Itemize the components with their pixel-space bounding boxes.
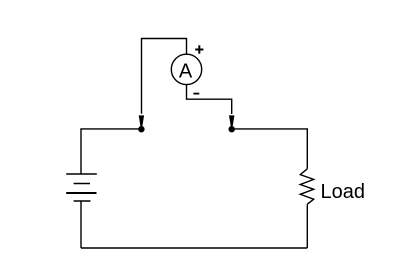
arrow to left junction <box>139 115 144 126</box>
label - polarity <box>193 93 199 95</box>
ammeter A <box>171 54 201 84</box>
label + polarity <box>195 45 203 53</box>
wire battery negative lead down to bottom rail <box>80 201 82 248</box>
wire bottom rail <box>81 247 307 249</box>
wire ammeter negative lead down right and down <box>187 85 232 114</box>
battery <box>66 174 97 201</box>
resistor Load <box>300 169 313 204</box>
svg-text:A: A <box>179 61 193 83</box>
node right junction <box>229 126 235 132</box>
node left junction <box>138 126 144 132</box>
wire load bottom lead <box>306 204 308 248</box>
wire load top lead and right junction rail <box>232 129 308 169</box>
wire battery positive lead up and right to left junction <box>81 129 141 174</box>
wire ammeter positive lead up left and down <box>142 39 187 114</box>
arrow to right junction <box>229 115 234 126</box>
svg-text:Load: Load <box>321 181 366 203</box>
